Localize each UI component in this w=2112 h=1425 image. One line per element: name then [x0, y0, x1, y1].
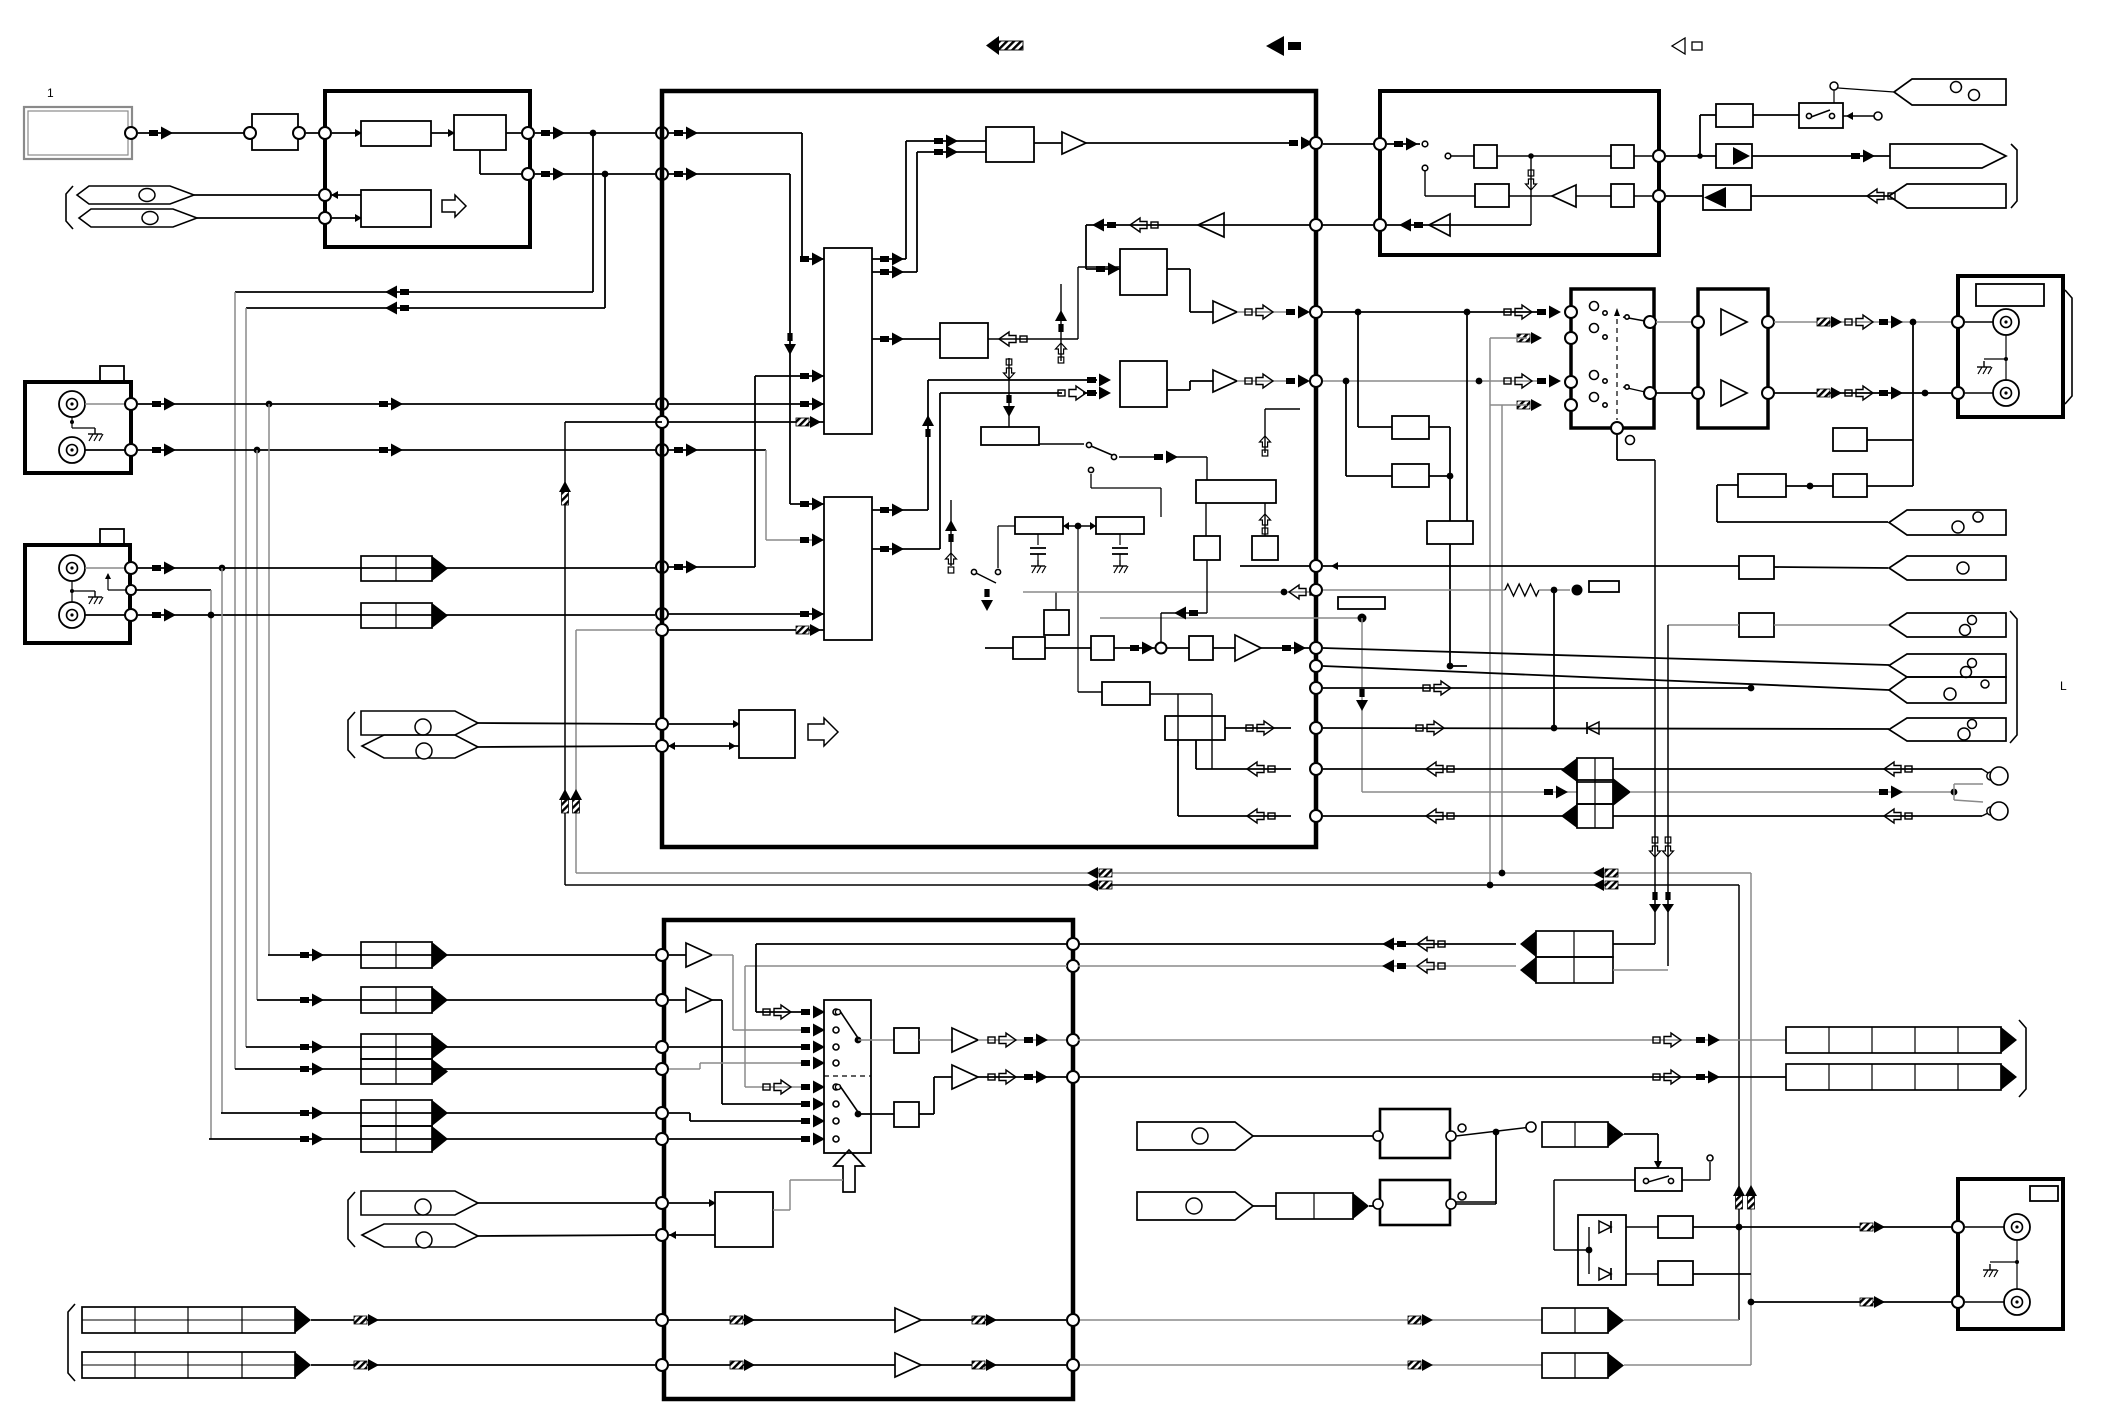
svg-text:1: 1 [47, 86, 54, 100]
svg-text:L: L [2060, 679, 2067, 693]
